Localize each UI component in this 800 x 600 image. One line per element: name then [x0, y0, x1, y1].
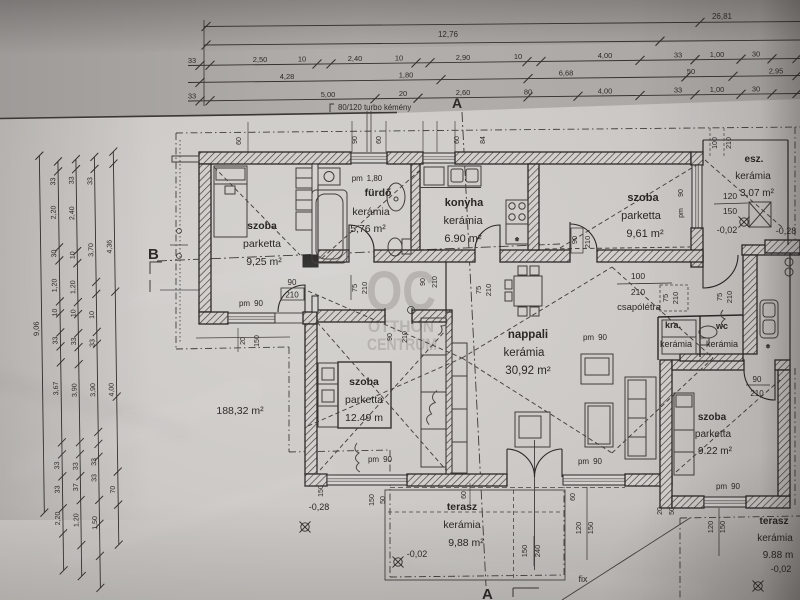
darker top band above paper edge: [0, 0, 800, 119]
paper edge line: [0, 113, 397, 119]
watermark OC OTTHON CENTRUM: [366, 259, 437, 354]
